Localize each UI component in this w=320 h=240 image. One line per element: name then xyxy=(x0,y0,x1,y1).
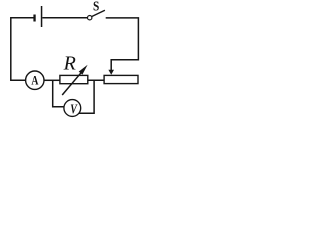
resistor R body xyxy=(60,75,88,83)
svg-text:R: R xyxy=(63,53,76,75)
wire: ammeter to resistor R xyxy=(44,79,60,81)
ammeter A1 circle xyxy=(26,71,44,89)
wire: top-left rail and top wire to battery xyxy=(11,18,34,80)
wire: voltmeter right branch xyxy=(79,80,94,113)
wire: switch to top-right corner, down right rail, step left, slider stem xyxy=(106,18,139,71)
svg-text:S: S xyxy=(93,0,99,15)
battery B1 long plate (positive) xyxy=(41,6,43,27)
voltmeter V1 circle xyxy=(64,100,81,117)
wire: resistor R to rheostat left terminal xyxy=(88,79,104,81)
battery B1 short plate (negative) xyxy=(33,15,35,22)
variable-resistor arrow shaft over R xyxy=(62,73,81,95)
switch S blade xyxy=(92,10,105,16)
wire: voltmeter left branch xyxy=(53,80,64,107)
variable-resistor arrowhead xyxy=(79,65,88,75)
slider arrowhead onto rheostat xyxy=(108,70,114,75)
wire: battery to switch xyxy=(42,17,87,19)
switch S pivot circle xyxy=(88,16,92,20)
rheostat R2 body xyxy=(104,75,138,83)
svg-text:V: V xyxy=(70,103,78,118)
svg-text:A: A xyxy=(31,73,38,87)
